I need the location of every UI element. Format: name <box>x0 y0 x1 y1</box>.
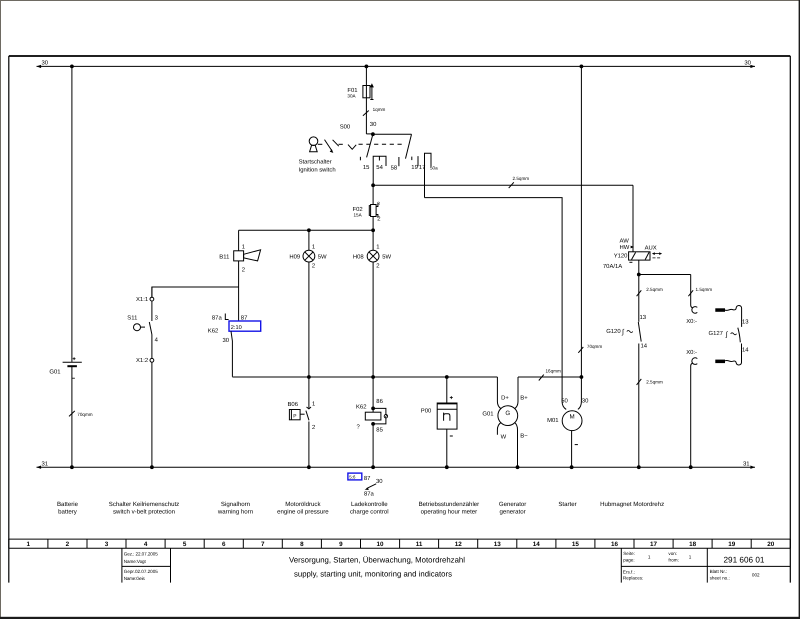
svg-text:86: 86 <box>376 398 383 405</box>
svg-text:4: 4 <box>144 541 148 548</box>
svg-text:5W: 5W <box>318 254 327 261</box>
svg-text:Schalter Keilriemenschutz: Schalter Keilriemenschutz <box>109 501 179 508</box>
svg-text:Generator: Generator <box>499 501 526 508</box>
svg-text:1.5qmm: 1.5qmm <box>696 287 713 292</box>
svg-text:Replaces:: Replaces: <box>623 575 643 580</box>
svg-text:15A: 15A <box>354 213 363 218</box>
svg-text:30: 30 <box>223 337 230 344</box>
svg-text:2: 2 <box>242 267 245 274</box>
svg-text:Ignition switch: Ignition switch <box>299 167 336 174</box>
svg-text:70qmm: 70qmm <box>77 412 92 417</box>
svg-text:3: 3 <box>105 541 109 548</box>
svg-text:5: 5 <box>183 541 187 548</box>
svg-text:31: 31 <box>42 460 49 467</box>
svg-text:1: 1 <box>689 555 692 560</box>
svg-text:2: 2 <box>312 424 315 431</box>
svg-text:7: 7 <box>261 541 265 548</box>
svg-text:19: 19 <box>728 541 736 548</box>
svg-text:X1:2: X1:2 <box>136 357 148 364</box>
svg-text:30: 30 <box>744 60 751 67</box>
svg-text:Hubmagnet Motordrehz: Hubmagnet Motordrehz <box>600 501 664 508</box>
svg-text:9: 9 <box>339 541 343 548</box>
svg-text:2: 2 <box>312 262 315 269</box>
svg-text:31: 31 <box>743 461 750 468</box>
svg-text:291 606 01: 291 606 01 <box>724 555 765 564</box>
svg-text:Betriebsstundenzähler: Betriebsstundenzähler <box>419 501 480 508</box>
svg-text:P: P <box>293 413 296 419</box>
svg-text:von:: von: <box>668 551 677 556</box>
svg-text:Batterie: Batterie <box>57 501 79 508</box>
svg-text:30: 30 <box>42 60 49 67</box>
svg-text:Signalhorn: Signalhorn <box>221 501 250 508</box>
svg-text:Name:Vogt: Name:Vogt <box>124 559 147 564</box>
svg-text:11: 11 <box>416 541 423 548</box>
svg-text:13: 13 <box>494 541 502 548</box>
svg-text:2: 2 <box>376 262 379 269</box>
svg-text:Seite:: Seite: <box>623 551 635 556</box>
svg-text:D+: D+ <box>501 395 509 402</box>
svg-text:1qmm: 1qmm <box>373 107 386 112</box>
svg-text:AW: AW <box>620 238 630 245</box>
svg-text:87: 87 <box>364 475 371 482</box>
svg-text:2.5qmm: 2.5qmm <box>646 379 663 384</box>
svg-text:20: 20 <box>767 541 775 548</box>
svg-text:X0:-: X0:- <box>686 349 697 356</box>
svg-text:Blatt Nr.:: Blatt Nr.: <box>710 569 728 574</box>
svg-text:warning horn: warning horn <box>217 508 253 515</box>
svg-text:Y120: Y120 <box>614 253 628 260</box>
svg-text:supply, starting unit, monitor: supply, starting unit, monitoring and in… <box>294 569 452 578</box>
svg-text:87a: 87a <box>364 490 375 497</box>
svg-text:G01: G01 <box>482 411 493 418</box>
svg-text:13: 13 <box>640 314 647 321</box>
svg-text:Motoröldruck: Motoröldruck <box>285 501 321 508</box>
svg-text:1: 1 <box>27 541 31 548</box>
svg-text:operating hour meter: operating hour meter <box>421 508 478 515</box>
svg-text:AUX: AUX <box>645 244 657 251</box>
svg-text:H08: H08 <box>353 254 365 261</box>
svg-text:6: 6 <box>222 541 226 548</box>
svg-text:58: 58 <box>391 164 398 171</box>
svg-text:54: 54 <box>376 164 383 171</box>
svg-text:sheet no.:: sheet no.: <box>710 575 730 580</box>
svg-text:5W: 5W <box>382 254 391 261</box>
svg-text:30: 30 <box>582 397 589 404</box>
svg-text:2.5qmm: 2.5qmm <box>513 176 530 181</box>
svg-text:17: 17 <box>650 541 658 548</box>
svg-text:P00: P00 <box>421 408 432 415</box>
svg-text:1: 1 <box>648 555 651 560</box>
svg-text:charge control: charge control <box>350 508 389 515</box>
svg-text:M01: M01 <box>547 417 558 424</box>
svg-text:from:: from: <box>668 558 678 563</box>
svg-text:5:6: 5:6 <box>349 475 356 480</box>
svg-text:K62: K62 <box>356 404 366 411</box>
svg-text:1: 1 <box>376 243 379 250</box>
svg-text:Gez.: 22.07.2005: Gez.: 22.07.2005 <box>124 551 158 556</box>
svg-text:H09: H09 <box>289 254 300 261</box>
svg-text:B06: B06 <box>288 401 299 408</box>
svg-text:switch v-belt protection: switch v-belt protection <box>113 508 175 515</box>
svg-text:18: 18 <box>689 541 697 548</box>
svg-text:1: 1 <box>312 243 315 250</box>
svg-text:8: 8 <box>300 541 304 548</box>
svg-text:S11: S11 <box>127 314 137 321</box>
svg-text:15: 15 <box>572 541 580 548</box>
svg-text:002: 002 <box>752 572 760 577</box>
svg-text:G01: G01 <box>49 369 60 376</box>
svg-text:16: 16 <box>611 541 619 548</box>
svg-text:2: 2 <box>66 541 70 548</box>
svg-text:87a: 87a <box>212 314 223 321</box>
svg-text:Gepr.02.07.2005: Gepr.02.07.2005 <box>124 569 158 574</box>
svg-text:K62: K62 <box>208 327 218 334</box>
svg-text:B11: B11 <box>219 254 229 261</box>
svg-text:30: 30 <box>376 478 383 485</box>
svg-text:1: 1 <box>242 244 245 251</box>
svg-text:G127: G127 <box>709 330 723 337</box>
svg-text:2.5qmm: 2.5qmm <box>646 287 663 292</box>
svg-text:HW: HW <box>620 244 630 251</box>
svg-text:12: 12 <box>455 541 463 548</box>
svg-text:16qmm: 16qmm <box>546 369 561 374</box>
svg-text:14: 14 <box>742 347 749 354</box>
svg-text:engine oil pressure: engine oil pressure <box>277 508 329 515</box>
svg-text:page:: page: <box>623 558 635 563</box>
svg-text:13: 13 <box>742 319 749 326</box>
svg-text:S00: S00 <box>340 124 351 131</box>
svg-text:M: M <box>570 414 575 421</box>
svg-text:Startschalter: Startschalter <box>299 159 332 166</box>
svg-text:30A: 30A <box>347 94 356 99</box>
svg-text:30: 30 <box>370 121 377 128</box>
svg-text:Name:Geis: Name:Geis <box>124 576 146 581</box>
svg-text:generator: generator <box>500 508 526 515</box>
svg-text:2:10: 2:10 <box>231 325 242 331</box>
svg-text:85: 85 <box>376 427 383 434</box>
svg-text:Ladekontrolle: Ladekontrolle <box>351 501 388 508</box>
svg-text:70qmm: 70qmm <box>587 344 602 349</box>
svg-text:15: 15 <box>363 164 370 171</box>
svg-text:G120: G120 <box>606 328 621 335</box>
svg-text:2: 2 <box>377 215 380 222</box>
svg-text:19: 19 <box>411 164 418 171</box>
svg-text:50a: 50a <box>430 165 438 170</box>
svg-text:1: 1 <box>312 401 315 408</box>
svg-text:battery: battery <box>58 508 78 515</box>
svg-text:Starter: Starter <box>558 501 576 508</box>
svg-text:14: 14 <box>533 541 541 548</box>
svg-text:50: 50 <box>561 397 568 404</box>
svg-text:X0:-: X0:- <box>686 318 697 325</box>
svg-text:B+: B+ <box>520 394 528 401</box>
svg-text:B−: B− <box>520 433 528 440</box>
svg-text:70A/1A: 70A/1A <box>603 263 622 270</box>
svg-text:8: 8 <box>377 201 380 206</box>
svg-text:10: 10 <box>376 541 384 548</box>
svg-text:X1:1: X1:1 <box>136 296 148 303</box>
svg-text:Ers.f.:: Ers.f.: <box>623 570 635 575</box>
svg-text:G: G <box>505 410 510 417</box>
svg-text:Versorgung, Starten, Überwachu: Versorgung, Starten, Überwachung, Motord… <box>289 555 465 564</box>
svg-text:14: 14 <box>641 342 648 349</box>
svg-text:W: W <box>501 433 507 440</box>
